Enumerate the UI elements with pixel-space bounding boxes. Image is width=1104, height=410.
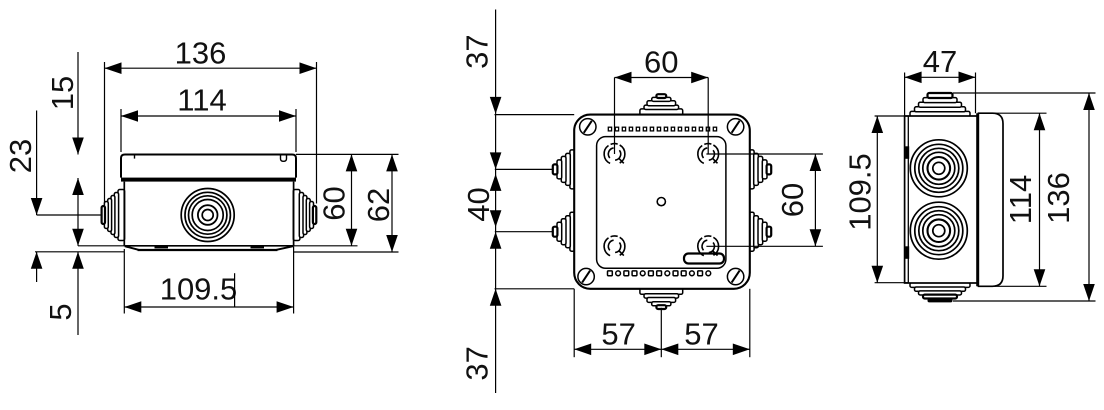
svg-text:37: 37 <box>460 34 495 68</box>
svg-text:60: 60 <box>317 186 352 220</box>
svg-text:60: 60 <box>775 183 810 217</box>
svg-text:60: 60 <box>644 45 678 80</box>
svg-text:57: 57 <box>684 317 718 352</box>
svg-text:109.5: 109.5 <box>843 153 878 231</box>
svg-text:62: 62 <box>361 188 396 222</box>
svg-text:136: 136 <box>1041 172 1076 224</box>
svg-text:114: 114 <box>1003 175 1038 224</box>
svg-text:136: 136 <box>175 35 227 70</box>
svg-text:47: 47 <box>923 44 957 79</box>
svg-text:23: 23 <box>3 139 38 173</box>
svg-text:109.5: 109.5 <box>160 272 238 307</box>
svg-text:15: 15 <box>45 76 80 110</box>
svg-text:57: 57 <box>601 317 635 352</box>
svg-text:5: 5 <box>43 303 78 320</box>
svg-text:37: 37 <box>459 346 494 380</box>
svg-text:40: 40 <box>461 187 496 221</box>
svg-text:114: 114 <box>177 83 226 118</box>
